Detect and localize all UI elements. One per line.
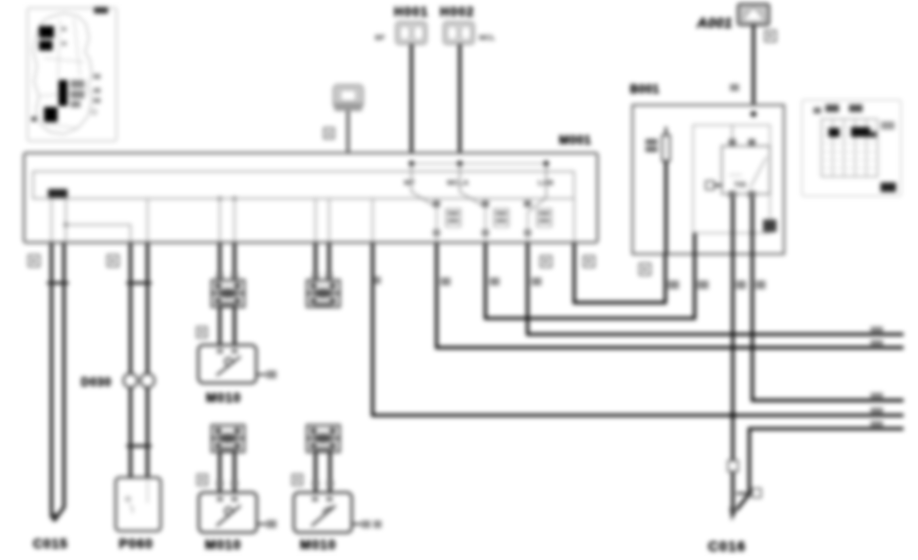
- wire splice left drop 2: [65, 198, 67, 244]
- wire drop bus right with jog to fuse 3: [528, 164, 547, 213]
- inset black unit A: [39, 26, 54, 38]
- inset diagram code label: [94, 7, 108, 14]
- washer pump M010a: [198, 345, 256, 383]
- wire x436 elbow to horizontal y347: [437, 243, 904, 348]
- x372 wire code tick: [374, 277, 381, 285]
- node dot H002: [457, 161, 462, 166]
- pin square below M001 x583: [584, 256, 595, 267]
- legend header INT: [826, 105, 840, 113]
- M010b tab label: [267, 520, 277, 528]
- legend +30 mark: [814, 108, 822, 114]
- A001 wire code label: [743, 119, 751, 130]
- B001 top pin label: [730, 84, 739, 91]
- wire pair to washer pump 2b: [328, 243, 331, 280]
- x527 wire code label: [532, 278, 542, 286]
- cable C016 tip: [730, 507, 737, 521]
- svg-text:T05: T05: [734, 182, 746, 189]
- inset dot: [31, 116, 36, 121]
- wire A001 to B001 relay: [752, 25, 755, 140]
- right end tick y334: [871, 327, 884, 334]
- P060 pair crossbar top: [127, 282, 152, 285]
- car inner contour: [40, 18, 86, 128]
- wire elbow to P060 branch: [66, 225, 131, 243]
- fusebox B001 box: [633, 105, 785, 254]
- relay pin left square: [706, 181, 715, 190]
- C015 crossbar tick: [47, 282, 69, 285]
- wire H001 to M001: [410, 44, 413, 164]
- node dot on drop 2: [64, 222, 69, 227]
- right end tick y415: [871, 408, 884, 415]
- connector D030 circle b: [141, 374, 155, 388]
- inset gray connector 1: [71, 80, 85, 88]
- pair 1 pin tick a: [217, 273, 223, 279]
- wire inner rect bottom drop: [693, 233, 696, 254]
- inset small circle: [92, 110, 97, 115]
- relay K in B001: [722, 146, 770, 194]
- B001 supply text line2: [646, 147, 658, 153]
- M010c tab label: [362, 521, 371, 529]
- CP4 pin tick b: [327, 481, 333, 487]
- A001 pin square: [765, 31, 776, 42]
- tick on x749 wire: [737, 492, 753, 494]
- legend black cell 1: [829, 128, 840, 137]
- svg-text:M010: M010: [206, 391, 241, 405]
- inset tick b: [62, 42, 67, 46]
- pin square below M001 second: [108, 255, 119, 267]
- relay pin bottom-left: [729, 191, 736, 198]
- bus wire inside M001: [412, 163, 547, 165]
- wire CP1 to M010a b: [233, 307, 236, 345]
- pair 2 pin tick b: [326, 273, 332, 279]
- wire B001 relay left long down to C016: [731, 254, 734, 516]
- legend table grid: [822, 119, 878, 177]
- x752 wire code label: [756, 281, 766, 290]
- CP4 pin tick a: [312, 481, 318, 487]
- legend header INT-A: [849, 105, 863, 113]
- fuse 3 pin tick bottom: [524, 230, 531, 237]
- legend right label: [881, 122, 895, 130]
- pair 2 pin tick a: [312, 273, 318, 279]
- svg-text:P060: P060: [119, 536, 153, 551]
- CP3 pin tick b: [231, 481, 237, 487]
- legend sheet number box: [881, 183, 897, 193]
- component location inset box: [28, 8, 117, 141]
- B001 fuse: [662, 127, 670, 161]
- car body outline: [33, 13, 92, 134]
- fuse 2 pin tick top: [482, 201, 489, 208]
- pin square left of M010a: [197, 327, 207, 338]
- inline connector pair CP4: [307, 425, 340, 452]
- inline connector on x732 wire: [728, 461, 738, 472]
- svg-text:C015: C015: [33, 536, 68, 551]
- x665 wire code label: [668, 281, 679, 290]
- inline connector pair CP2: [307, 280, 340, 307]
- pin square for plug W: [324, 128, 334, 139]
- pin square on x749 tick: [752, 489, 761, 498]
- pin square below B001: [640, 264, 651, 276]
- wire x574 elbow up into B001 left: [574, 243, 665, 303]
- fuse 2 label: [494, 209, 509, 227]
- plug connector W at top of M001: [334, 85, 364, 111]
- junction unit M001 box: [24, 153, 598, 243]
- fuse 1 pin tick top: [433, 201, 440, 208]
- svg-text:BF: BF: [375, 33, 385, 42]
- M010a right tab: [256, 374, 266, 376]
- relay pin bottom-right: [748, 191, 755, 198]
- node dot bus right: [544, 161, 549, 166]
- wire pair to washer pump 2a: [314, 243, 317, 280]
- wire x372 elbow to long horizontal y415: [373, 243, 904, 415]
- washer pump M010b: [199, 493, 257, 533]
- wire drop single x574: [573, 199, 575, 244]
- M010b right tab: [257, 523, 266, 525]
- wire drop single x372: [372, 199, 374, 244]
- fuel pump P060 box: [116, 478, 161, 532]
- x732 wire code label: [736, 281, 746, 290]
- wire drop pump pair 2a: [315, 199, 317, 244]
- relay top-left pin wire to inner rect: [731, 125, 733, 139]
- node dot at inner rect bottom: [750, 231, 754, 235]
- wire pair to P060 a: [129, 243, 132, 478]
- connector H002: [444, 22, 475, 44]
- wires CP3 to M010b a: [218, 452, 221, 493]
- cable C015 wire a: [50, 243, 53, 518]
- relay pin top-left: [729, 139, 736, 146]
- node dot pump pair 1a: [218, 196, 222, 200]
- fuse 2 pin tick bottom: [482, 230, 489, 237]
- svg-text:A001: A001: [696, 15, 732, 31]
- wire splice left drop 1: [51, 198, 53, 244]
- wires CP4 to M010c a: [314, 452, 317, 493]
- pin square left of M010b: [197, 475, 207, 486]
- splice label G45: [48, 189, 68, 198]
- right end tick y428: [871, 421, 884, 428]
- svg-text:M010: M010: [300, 537, 337, 552]
- P060 pair crossbar bottom: [127, 445, 152, 448]
- wire plug W to M001: [347, 111, 349, 172]
- wire drop pump pair 1b: [234, 199, 236, 244]
- wire from right horizontal y428 down to C016 merge: [737, 429, 904, 510]
- M010a tab label: [267, 371, 277, 379]
- wire relay bottom-right down: [751, 198, 754, 254]
- wire fuse to B001 bottom: [664, 161, 667, 254]
- pin square left of M010c: [292, 475, 302, 486]
- wire drop pump pair 2b: [328, 199, 330, 244]
- inset mark 2: [94, 88, 101, 93]
- dark pin label right of wire: [763, 220, 777, 233]
- inset mark 1: [94, 74, 101, 79]
- svg-text:M010: M010: [205, 537, 242, 552]
- svg-text:H002: H002: [440, 5, 475, 19]
- connector D030 circle a: [124, 374, 138, 388]
- inset black unit B: [39, 41, 53, 51]
- wires CP3 to M010b b: [233, 452, 236, 493]
- svg-text:MCLA: MCLA: [447, 178, 469, 187]
- x694 wire code label: [698, 281, 709, 290]
- wire x485 elbow up into B001: [485, 243, 694, 318]
- wire pair to washer pump 1a: [218, 243, 221, 280]
- svg-text:H001: H001: [394, 5, 429, 19]
- wire B001 relay right to horizontal y400: [752, 254, 903, 400]
- inset tick a: [62, 27, 67, 31]
- inset black unit C: [44, 107, 58, 122]
- fuse 1 label: [446, 209, 461, 227]
- wire x527 elbow to horizontal y334: [528, 243, 904, 334]
- inset gray connector 3: [71, 101, 81, 108]
- fuse 1 pin tick bottom: [433, 230, 440, 237]
- relay pin left stub: [708, 184, 722, 186]
- svg-text:M001: M001: [559, 133, 591, 147]
- svg-text:MCL: MCL: [479, 33, 496, 42]
- cable C015 wire b: [54, 243, 64, 521]
- connector H001: [396, 22, 427, 44]
- inset gray connector 2: [71, 91, 85, 99]
- wire drop H002 with jog to fuse 2: [460, 164, 486, 208]
- junction dot y415: [730, 412, 736, 418]
- wire drop H001 with jog to fuse 1: [412, 164, 437, 208]
- right end tick y347: [871, 340, 884, 347]
- wire H002 to M001: [458, 44, 461, 164]
- B001 inner rect: [693, 125, 770, 233]
- right end tick y400: [871, 393, 884, 400]
- ignition key position legend box: [802, 100, 901, 196]
- svg-text:B001: B001: [630, 84, 660, 96]
- M001 inner rect: [33, 172, 574, 199]
- pair 1 pin tick b: [231, 273, 237, 279]
- wires CP1 to M010a: [218, 307, 221, 345]
- inline connector pair CP3: [212, 425, 245, 452]
- CP3 pin tick a: [217, 481, 223, 487]
- wire pair to P060 b: [146, 243, 149, 478]
- wire drop to P060 second: [147, 199, 149, 244]
- svg-text:MF: MF: [404, 178, 415, 187]
- cable C015 tip: [50, 510, 57, 522]
- wire drop pump pair 1a: [219, 199, 221, 244]
- B001 supply text line1: [646, 139, 658, 145]
- fuse 3 label: [537, 209, 552, 227]
- node dot pump pair 1b: [232, 196, 236, 200]
- svg-text:D030: D030: [81, 377, 112, 389]
- wire relay bottom-left down: [731, 198, 734, 254]
- node dot H001: [409, 161, 414, 166]
- inset mark 3: [94, 98, 101, 103]
- node dot A001 wire: [751, 111, 757, 117]
- washer pump M010c: [294, 493, 352, 533]
- fuse 3 pin tick top: [524, 201, 531, 208]
- pin square below M001 x540: [541, 256, 552, 267]
- M010c right tab: [352, 523, 361, 525]
- x436 wire code label: [441, 278, 451, 286]
- connector A001: [738, 4, 769, 25]
- svg-text:C016: C016: [708, 538, 746, 554]
- relay pin top-right: [748, 139, 755, 146]
- inline connector pair CP1: [212, 280, 245, 307]
- wires CP4 to M010c b: [328, 452, 331, 493]
- pin square below M001 left: [29, 255, 40, 267]
- legend dark cell 3: [870, 132, 877, 138]
- wire pair to washer pump 1b: [233, 243, 236, 280]
- inset tall black unit: [59, 80, 68, 106]
- x485 wire code label: [490, 278, 500, 286]
- legend black cell 2: [851, 127, 870, 137]
